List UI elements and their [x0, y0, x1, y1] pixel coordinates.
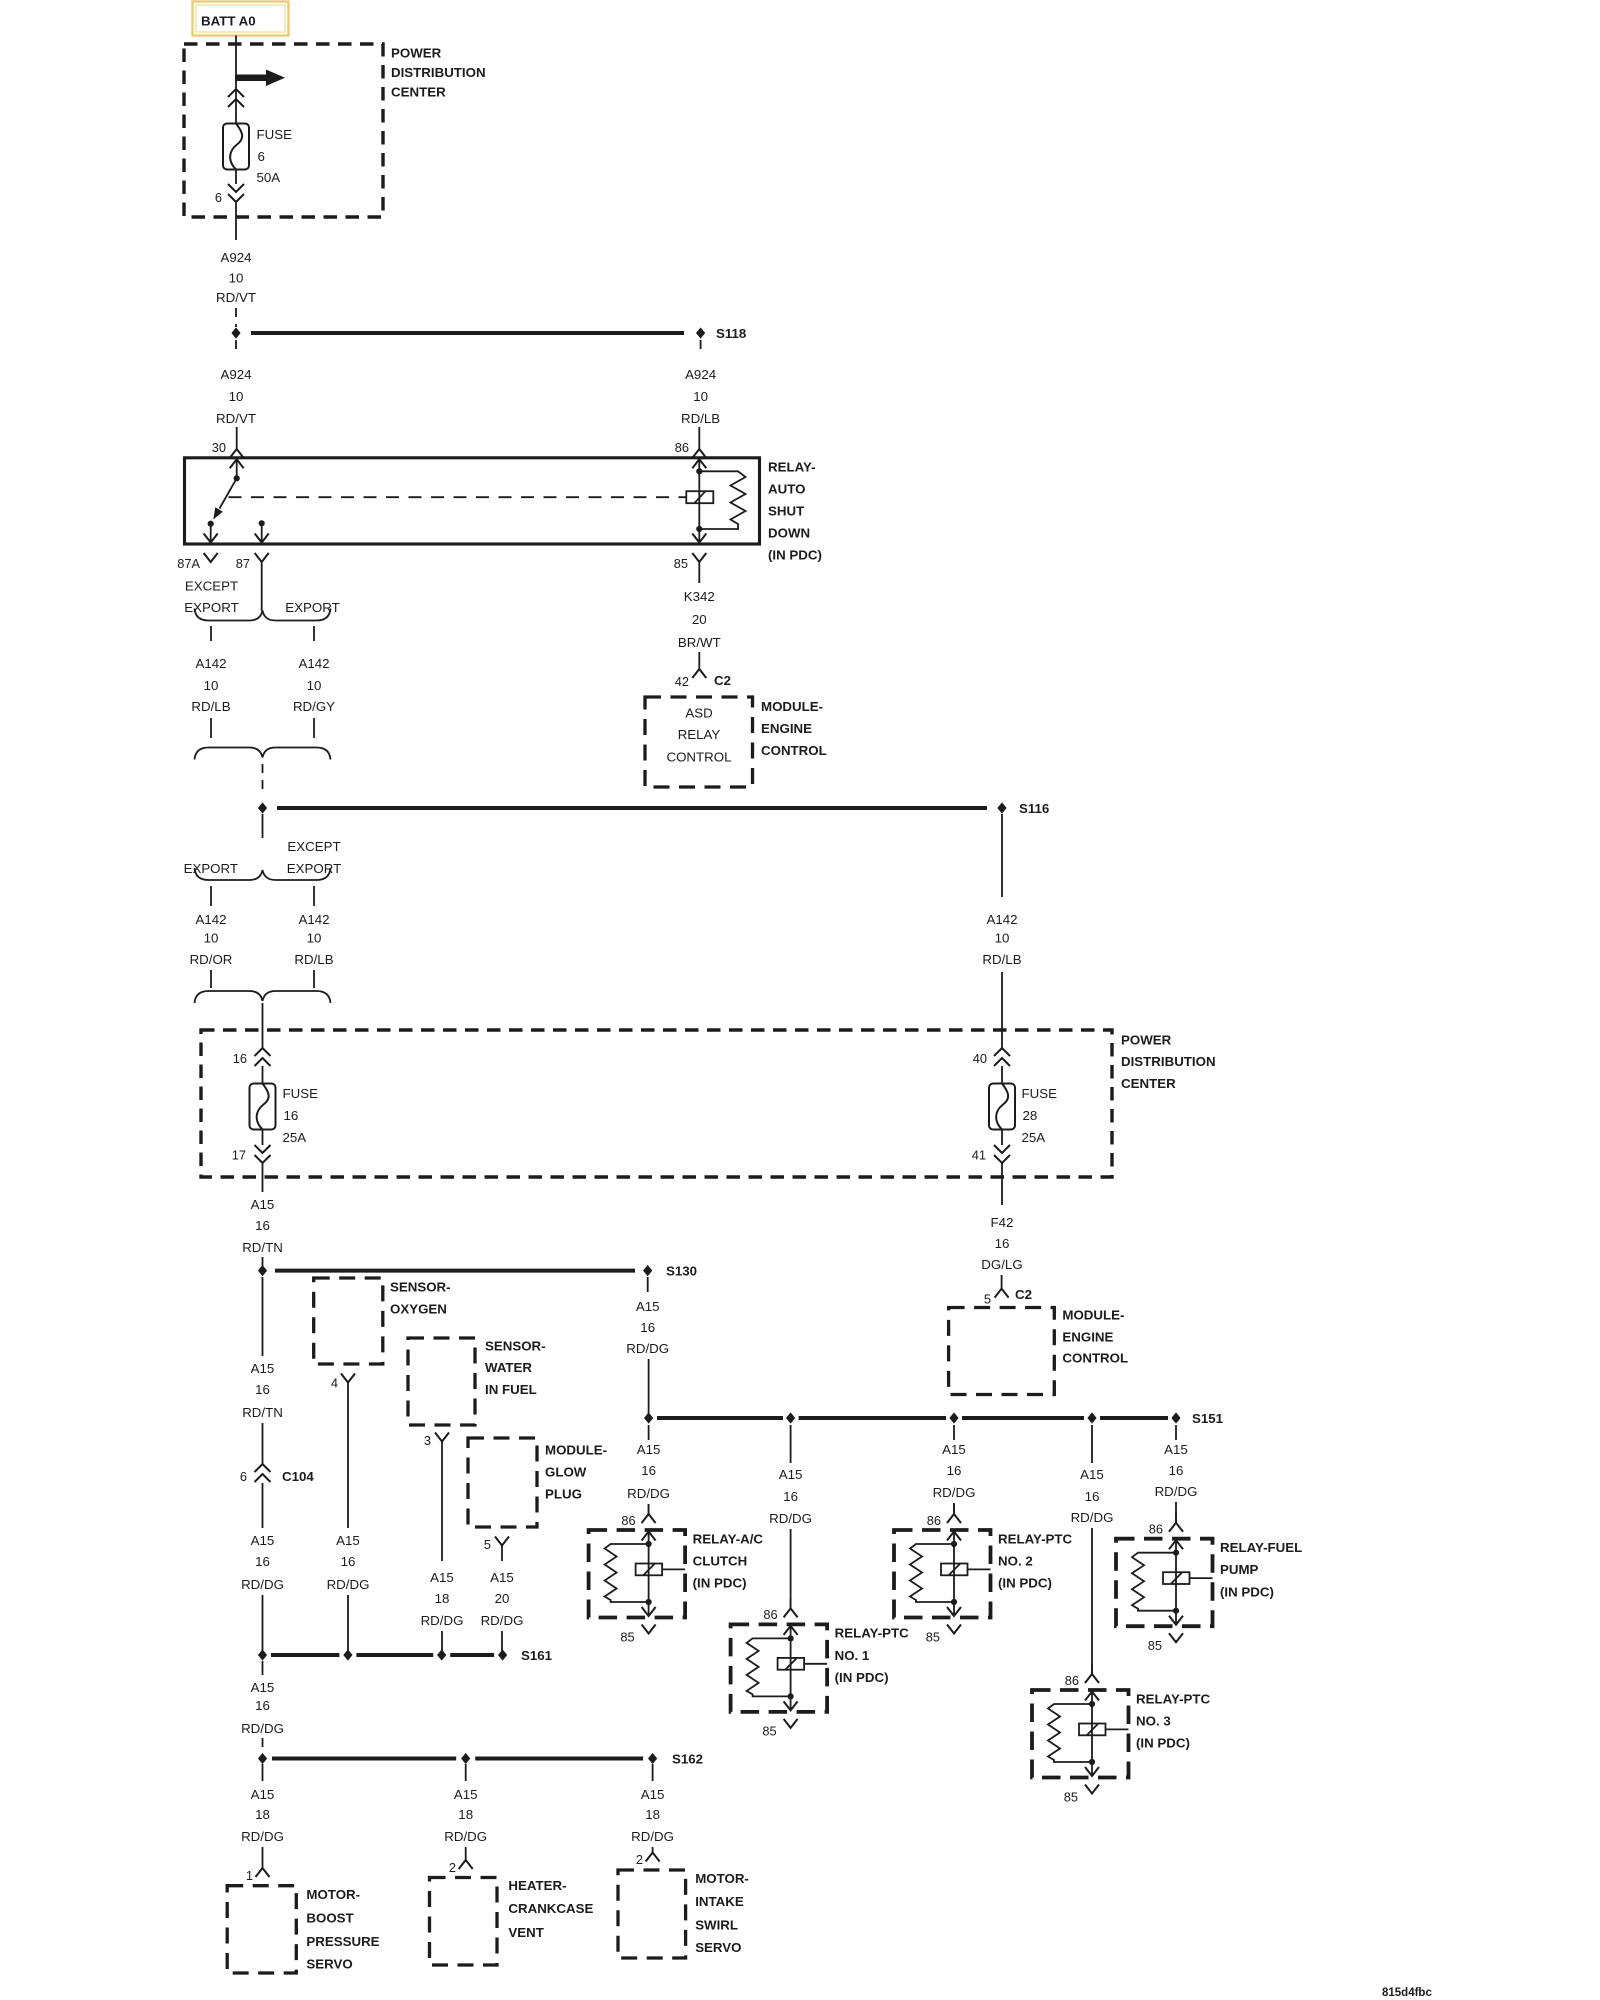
svg-text:18: 18: [458, 1807, 473, 1822]
wire into PDC 2: [262, 1003, 264, 1048]
svg-text:SERVO: SERVO: [306, 1957, 352, 1972]
PDC label: [391, 45, 486, 99]
svg-text:85: 85: [1064, 1789, 1078, 1804]
svg-text:RD/TN: RD/TN: [242, 1405, 283, 1420]
svg-text:86: 86: [675, 440, 689, 455]
relay fuel pump: [1116, 1513, 1302, 1653]
contact 87: [259, 520, 265, 526]
svg-text:RD/DG: RD/DG: [627, 1486, 670, 1501]
coil shunt resistor: [699, 471, 745, 529]
svg-text:RELAY-A/C: RELAY-A/C: [693, 1531, 764, 1546]
module engine control label 2: [1062, 1308, 1128, 1366]
svg-text:FUSE: FUSE: [283, 1086, 319, 1101]
svg-text:AUTO: AUTO: [768, 481, 805, 496]
splice S116: [258, 801, 1049, 816]
svg-text:86: 86: [1149, 1522, 1163, 1537]
svg-text:85: 85: [926, 1629, 940, 1644]
svg-text:POWER: POWER: [391, 45, 442, 60]
left fuse pin 16: [233, 1048, 271, 1066]
svg-text:CLUTCH: CLUTCH: [693, 1554, 748, 1569]
svg-text:VENT: VENT: [508, 1925, 543, 1940]
svg-text:NO. 3: NO. 3: [1136, 1714, 1171, 1729]
svg-text:16: 16: [341, 1554, 356, 1569]
svg-text:86: 86: [927, 1513, 941, 1528]
wire to S151: [648, 1359, 650, 1418]
svg-text:1: 1: [246, 1868, 253, 1883]
wire: [441, 1631, 443, 1655]
coil node bottom: [696, 526, 702, 532]
relay coil: [686, 491, 713, 503]
option stub right lower: [313, 718, 315, 738]
wire: [262, 1423, 264, 1465]
svg-text:RD/DG: RD/DG: [241, 1829, 284, 1844]
svg-text:DISTRIBUTION: DISTRIBUTION: [391, 65, 486, 80]
pin 85 blade inside: [692, 534, 706, 543]
svg-text:A142: A142: [986, 912, 1017, 927]
svg-text:A15: A15: [1080, 1467, 1104, 1482]
stub right: [313, 886, 315, 906]
wire pin4 to S161: [347, 1383, 349, 1529]
wire pin5 to S161: [501, 1546, 503, 1562]
svg-text:HEATER-: HEATER-: [508, 1878, 566, 1893]
svg-text:10: 10: [229, 270, 244, 285]
wire S116 right leg: [1001, 814, 1003, 897]
svg-text:SHUT: SHUT: [768, 503, 804, 518]
svg-text:RELAY-PTC: RELAY-PTC: [835, 1626, 910, 1641]
power distribution center box 1: [184, 44, 383, 217]
svg-text:RD/TN: RD/TN: [242, 1240, 283, 1255]
svg-text:16: 16: [995, 1236, 1010, 1251]
svg-text:18: 18: [435, 1591, 450, 1606]
svg-text:87A: 87A: [177, 556, 200, 571]
svg-text:FUSE: FUSE: [1022, 1086, 1058, 1101]
svg-text:6: 6: [258, 149, 265, 164]
wire S130 to C104 leg: [262, 1277, 264, 1356]
svg-text:SENSOR-: SENSOR-: [390, 1279, 451, 1294]
left fuse pin 17: [232, 1145, 271, 1163]
wire pin3 to S161: [441, 1442, 443, 1562]
svg-text:10: 10: [307, 930, 322, 945]
svg-text:RD/DG: RD/DG: [626, 1341, 669, 1356]
svg-text:RD/DG: RD/DG: [1071, 1510, 1114, 1525]
svg-text:ENGINE: ENGINE: [1062, 1329, 1113, 1344]
splice S130: [258, 1263, 697, 1278]
svg-text:RD/DG: RD/DG: [444, 1829, 487, 1844]
svg-text:S116: S116: [1019, 801, 1049, 816]
svg-text:A15: A15: [251, 1787, 275, 1802]
svg-text:4: 4: [331, 1375, 338, 1390]
pin 87A terminal: [177, 553, 217, 571]
sensor-water in fuel box: [408, 1338, 475, 1425]
svg-text:MODULE-: MODULE-: [761, 699, 823, 714]
svg-text:CONTROL: CONTROL: [1062, 1350, 1128, 1365]
svg-text:RD/VT: RD/VT: [216, 290, 256, 305]
svg-text:87: 87: [236, 556, 250, 571]
wire S162 to boost motor: [262, 1764, 264, 1781]
splice S161: [258, 1648, 553, 1663]
svg-text:IN FUEL: IN FUEL: [485, 1382, 537, 1397]
svg-text:16: 16: [1085, 1489, 1100, 1504]
svg-text:SERVO: SERVO: [695, 1940, 741, 1955]
svg-text:MODULE-: MODULE-: [545, 1442, 607, 1457]
svg-text:SENSOR-: SENSOR-: [485, 1339, 546, 1354]
wire S116 left leg: [262, 814, 264, 838]
pin 85 terminal: [674, 553, 707, 583]
svg-text:A15: A15: [454, 1787, 478, 1802]
svg-text:18: 18: [255, 1807, 270, 1822]
svg-text:ASD: ASD: [685, 705, 712, 720]
connector C104 pin 6: [240, 1464, 315, 1484]
wire to C2: [698, 652, 700, 669]
relay internal dashed link: [229, 496, 687, 498]
power flow arrow: [235, 70, 285, 87]
svg-text:86: 86: [621, 1513, 635, 1528]
relay A/C clutch: [589, 1504, 764, 1644]
svg-text:BATT A0: BATT A0: [201, 13, 256, 28]
svg-text:FUSE: FUSE: [257, 127, 293, 142]
svg-text:16: 16: [1169, 1463, 1184, 1478]
svg-text:A15: A15: [641, 1787, 665, 1802]
dashed wire: [262, 1738, 264, 1752]
connector chevrons above fuse: [228, 89, 244, 107]
wire S162 to crankcase vent: [465, 1764, 467, 1781]
option stub right: [313, 626, 315, 641]
svg-text:RD/GY: RD/GY: [293, 699, 335, 714]
svg-text:2: 2: [449, 1860, 456, 1875]
relay PTC no.1: [731, 1598, 910, 1738]
svg-text:CONTROL: CONTROL: [761, 743, 827, 758]
wire S162 to intake swirl servo: [652, 1764, 654, 1781]
splice S118: [231, 326, 746, 341]
right fuse pin 40: [973, 1048, 1010, 1066]
svg-text:16: 16: [284, 1108, 299, 1123]
svg-text:ENGINE: ENGINE: [761, 721, 812, 736]
relay auto shut down box: [185, 458, 760, 544]
svg-text:CENTER: CENTER: [1121, 1076, 1176, 1091]
svg-text:2: 2: [636, 1852, 643, 1867]
svg-text:DOWN: DOWN: [768, 525, 810, 540]
fuse 28 25A: [989, 1084, 1057, 1145]
svg-text:40: 40: [973, 1051, 987, 1066]
svg-text:(IN PDC): (IN PDC): [835, 1670, 889, 1685]
svg-text:A15: A15: [251, 1361, 275, 1376]
wire S118 left leg: [235, 340, 237, 356]
svg-text:A142: A142: [195, 912, 226, 927]
svg-text:85: 85: [1148, 1638, 1162, 1653]
svg-text:F42: F42: [991, 1215, 1014, 1230]
svg-text:A15: A15: [251, 1197, 275, 1212]
svg-text:16: 16: [233, 1051, 247, 1066]
svg-text:MOTOR-: MOTOR-: [306, 1887, 360, 1902]
svg-text:(IN PDC): (IN PDC): [1136, 1736, 1190, 1751]
wire S118 right leg: [700, 340, 702, 356]
svg-text:A15: A15: [779, 1467, 803, 1482]
contact 87A: [208, 521, 214, 527]
wire fuse to S118: [235, 170, 237, 185]
svg-text:16: 16: [255, 1554, 270, 1569]
svg-text:RD/LB: RD/LB: [982, 952, 1021, 967]
svg-text:815d4fbc: 815d4fbc: [1382, 1987, 1432, 1999]
svg-text:42: 42: [675, 674, 689, 689]
svg-text:GLOW: GLOW: [545, 1464, 587, 1479]
svg-text:41: 41: [972, 1147, 986, 1162]
svg-text:NO. 2: NO. 2: [998, 1554, 1033, 1569]
svg-text:CRANKCASE: CRANKCASE: [508, 1901, 593, 1916]
svg-text:A924: A924: [220, 367, 251, 382]
svg-text:EXCEPT: EXCEPT: [287, 839, 340, 854]
svg-text:EXPORT: EXPORT: [184, 861, 238, 876]
svg-text:CONTROL: CONTROL: [666, 749, 731, 764]
svg-text:RD/DG: RD/DG: [631, 1829, 674, 1844]
switch common contact: [234, 475, 240, 481]
svg-text:20: 20: [692, 612, 707, 627]
dashed wire: [262, 1257, 264, 1266]
svg-text:C2: C2: [1015, 1287, 1032, 1302]
svg-text:CENTER: CENTER: [391, 85, 446, 100]
svg-text:PRESSURE: PRESSURE: [306, 1934, 379, 1949]
svg-text:16: 16: [641, 1463, 656, 1478]
svg-text:5: 5: [984, 1291, 991, 1306]
svg-text:25A: 25A: [1022, 1130, 1046, 1145]
svg-text:RD/DG: RD/DG: [241, 1721, 284, 1736]
svg-text:85: 85: [762, 1724, 776, 1739]
svg-text:16: 16: [947, 1463, 962, 1478]
svg-text:RELAY-: RELAY-: [768, 459, 816, 474]
sensor-water label: [485, 1339, 546, 1397]
svg-text:A142: A142: [195, 656, 226, 671]
wire to S116: [262, 764, 264, 792]
module engine control box (ASD relay control): [645, 697, 753, 787]
svg-text:30: 30: [212, 440, 226, 455]
svg-text:RD/DG: RD/DG: [769, 1511, 812, 1526]
stub right lower: [313, 970, 315, 988]
svg-text:RD/VT: RD/VT: [216, 411, 256, 426]
svg-text:(IN PDC): (IN PDC): [693, 1576, 747, 1591]
svg-text:(IN PDC): (IN PDC): [998, 1576, 1052, 1591]
svg-text:BOOST: BOOST: [306, 1911, 353, 1926]
svg-text:S161: S161: [521, 1648, 553, 1663]
svg-text:S130: S130: [666, 1263, 697, 1278]
svg-text:PLUG: PLUG: [545, 1486, 582, 1501]
svg-text:A924: A924: [220, 250, 251, 265]
svg-text:K342: K342: [684, 589, 715, 604]
svg-text:A15: A15: [637, 1442, 661, 1457]
svg-text:20: 20: [495, 1591, 510, 1606]
svg-text:WATER: WATER: [485, 1360, 532, 1375]
wire from battery into PDC: [235, 36, 237, 124]
svg-text:A142: A142: [298, 656, 329, 671]
option labels export / except export: [184, 839, 342, 876]
svg-text:28: 28: [1023, 1108, 1038, 1123]
option merge brace: [195, 748, 331, 760]
module-glow plug box: [468, 1438, 537, 1527]
svg-text:RELAY: RELAY: [678, 727, 721, 742]
svg-text:10: 10: [229, 389, 244, 404]
svg-text:RELAY-FUEL: RELAY-FUEL: [1220, 1540, 1302, 1555]
svg-text:25A: 25A: [283, 1130, 307, 1145]
water sensor pin 3: [424, 1433, 449, 1448]
wire to S161: [262, 1595, 264, 1655]
wire S151 to PTC1 relay: [790, 1425, 792, 1463]
pin 86 blade inside: [692, 459, 706, 468]
glow plug pin 5: [484, 1537, 509, 1552]
svg-text:RD/DG: RD/DG: [933, 1485, 976, 1500]
svg-text:BR/WT: BR/WT: [678, 635, 721, 650]
relay label: [768, 459, 822, 562]
svg-text:NO. 1: NO. 1: [835, 1648, 870, 1663]
svg-text:16: 16: [783, 1489, 798, 1504]
glow plug label: [545, 1442, 607, 1501]
svg-text:16: 16: [255, 1218, 270, 1233]
wire to pin 30: [236, 427, 238, 449]
option stub left: [210, 626, 212, 641]
relay PTC no.2: [894, 1504, 1073, 1644]
intake pin 2: [636, 1852, 660, 1867]
wire: [501, 1631, 503, 1655]
stub left lower: [210, 970, 212, 988]
PDC2 label: [1121, 1032, 1216, 1091]
wire S130 right leg: [647, 1277, 649, 1292]
heater pin 2: [449, 1860, 473, 1875]
svg-text:EXPORT: EXPORT: [184, 600, 238, 615]
connector C2 pin 5: [984, 1287, 1032, 1307]
svg-text:6: 6: [240, 1469, 247, 1484]
svg-text:A15: A15: [1164, 1442, 1188, 1457]
heater-crankcase vent box: [430, 1878, 498, 1966]
svg-text:RD/LB: RD/LB: [681, 411, 720, 426]
svg-text:RELAY-PTC: RELAY-PTC: [998, 1531, 1073, 1546]
svg-text:A924: A924: [685, 367, 716, 382]
svg-text:85: 85: [620, 1629, 634, 1644]
wire into PDC 2 right: [1001, 972, 1003, 1048]
wire S151 to A/C relay: [648, 1425, 650, 1440]
pin 87 terminal: [236, 553, 269, 611]
svg-text:MODULE-: MODULE-: [1062, 1308, 1124, 1323]
pin 6 exit chevrons: [215, 184, 244, 205]
svg-text:MOTOR-: MOTOR-: [695, 1871, 749, 1886]
svg-text:5: 5: [484, 1537, 491, 1552]
relay PTC no.3: [1032, 1664, 1211, 1804]
svg-text:A15: A15: [251, 1533, 275, 1548]
svg-text:10: 10: [204, 930, 219, 945]
intake swirl label: [695, 1871, 749, 1955]
svg-text:C2: C2: [714, 673, 731, 688]
fuse 6 50A: [223, 124, 292, 185]
svg-text:RD/LB: RD/LB: [191, 699, 230, 714]
svg-text:(IN PDC): (IN PDC): [768, 547, 822, 562]
svg-text:A15: A15: [942, 1442, 966, 1457]
sensor-oxygen label: [390, 1279, 451, 1316]
svg-text:(IN PDC): (IN PDC): [1220, 1584, 1274, 1599]
svg-text:10: 10: [995, 930, 1010, 945]
svg-text:10: 10: [307, 678, 322, 693]
svg-text:6: 6: [215, 190, 222, 205]
svg-text:DG/LG: DG/LG: [981, 1257, 1022, 1272]
svg-text:17: 17: [232, 1147, 246, 1162]
option merge brace 2: [195, 991, 331, 1003]
wire to pin 86: [698, 427, 700, 449]
wire S151 to fuel pump relay: [1175, 1425, 1177, 1440]
battery feed BATT A0: [193, 2, 289, 36]
pin 30 blade inside: [230, 459, 244, 468]
sensor-oxygen box: [314, 1278, 383, 1364]
svg-text:86: 86: [1065, 1673, 1079, 1688]
crankcase vent label: [508, 1878, 593, 1940]
stub left: [210, 886, 212, 906]
svg-text:16: 16: [255, 1698, 270, 1713]
svg-text:S118: S118: [716, 326, 746, 341]
right fuse pin 41: [972, 1145, 1010, 1163]
svg-text:86: 86: [763, 1607, 777, 1622]
svg-text:INTAKE: INTAKE: [695, 1894, 744, 1909]
svg-text:RD/DG: RD/DG: [241, 1577, 284, 1592]
svg-text:A15: A15: [636, 1299, 660, 1314]
splice S151: [644, 1411, 1224, 1426]
svg-text:DISTRIBUTION: DISTRIBUTION: [1121, 1054, 1216, 1069]
wire to C2: [1001, 1275, 1003, 1289]
option split brace: [195, 609, 331, 621]
motor pin 1: [246, 1868, 270, 1883]
coil node top: [696, 468, 702, 474]
wire: [347, 1595, 349, 1655]
pin 86 connector: [675, 440, 707, 458]
svg-text:EXCEPT: EXCEPT: [185, 578, 238, 593]
svg-text:10: 10: [693, 389, 708, 404]
motor-boost pressure servo box: [227, 1886, 296, 1973]
svg-text:OXYGEN: OXYGEN: [390, 1301, 447, 1316]
svg-text:RD/DG: RD/DG: [481, 1613, 524, 1628]
wire below C104: [262, 1483, 264, 1528]
svg-text:POWER: POWER: [1121, 1032, 1172, 1047]
wire S151 to PTC3 relay: [1091, 1425, 1093, 1463]
motor-intake swirl servo box: [618, 1870, 686, 1958]
svg-text:A15: A15: [251, 1680, 275, 1695]
wire below S161: [262, 1661, 264, 1675]
svg-text:10: 10: [204, 678, 219, 693]
module engine control box 2: [949, 1308, 1055, 1395]
svg-text:RD/LB: RD/LB: [294, 952, 333, 967]
dashed wire: [235, 308, 237, 327]
svg-text:PUMP: PUMP: [1220, 1562, 1259, 1577]
option stub left lower: [210, 718, 212, 738]
pin 30 connector: [212, 440, 244, 458]
svg-text:A15: A15: [490, 1570, 514, 1585]
splice S162: [258, 1751, 703, 1766]
svg-text:RD/OR: RD/OR: [190, 952, 233, 967]
svg-text:RD/DG: RD/DG: [327, 1577, 370, 1592]
connector C2 pin 42: [675, 669, 731, 689]
boost servo label: [306, 1887, 379, 1971]
wire S151 to PTC2 relay: [953, 1425, 955, 1440]
fuse 16 25A: [250, 1084, 319, 1145]
svg-text:A15: A15: [430, 1570, 454, 1585]
option split brace 2: [195, 868, 331, 880]
svg-text:50A: 50A: [257, 170, 281, 185]
switch movable arm: [213, 478, 236, 519]
svg-text:SWIRL: SWIRL: [695, 1918, 738, 1933]
svg-text:S151: S151: [1192, 1411, 1224, 1426]
svg-text:EXPORT: EXPORT: [285, 600, 339, 615]
option labels except export / export: [184, 578, 339, 615]
svg-text:18: 18: [645, 1807, 660, 1822]
module engine control label: [761, 699, 827, 758]
svg-text:C104: C104: [282, 1469, 314, 1484]
svg-text:RD/DG: RD/DG: [421, 1613, 464, 1628]
svg-text:85: 85: [674, 556, 688, 571]
oxygen sensor pin 4: [331, 1374, 355, 1391]
power distribution center box 2: [201, 1030, 1112, 1177]
svg-text:S162: S162: [672, 1751, 703, 1766]
